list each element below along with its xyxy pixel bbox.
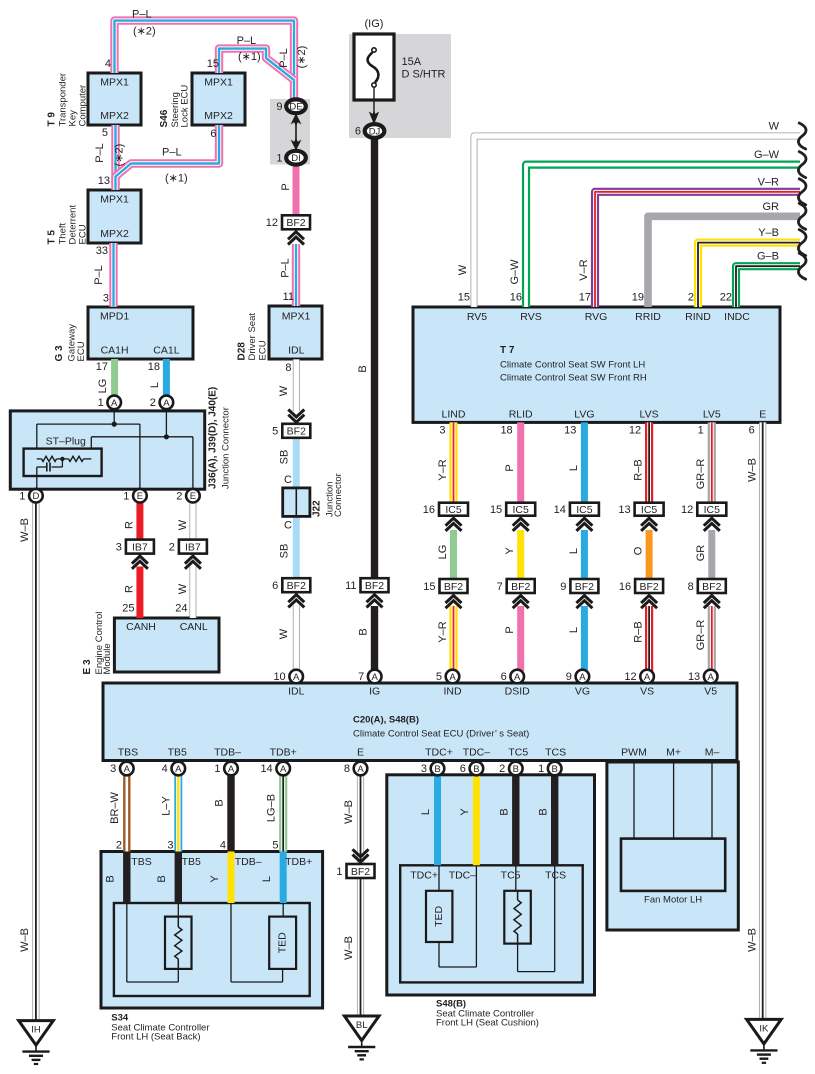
svg-text:Front LH (Seat Cushion): Front LH (Seat Cushion) (436, 1018, 539, 1029)
svg-text:TBS: TBS (118, 747, 138, 759)
svg-text:BF2: BF2 (286, 217, 305, 229)
svg-text:A: A (644, 672, 651, 683)
svg-text:B: B (538, 808, 550, 815)
svg-text:5: 5 (272, 426, 278, 438)
svg-text:4: 4 (162, 763, 168, 775)
svg-text:D28: D28 (237, 342, 248, 361)
svg-text:15: 15 (490, 504, 502, 516)
svg-text:R–B: R–B (633, 621, 645, 642)
svg-text:VS: VS (640, 686, 654, 698)
svg-text:C20(A), S48(B): C20(A), S48(B) (353, 715, 419, 726)
svg-text:1: 1 (336, 866, 342, 878)
svg-text:B: B (499, 808, 511, 815)
svg-text:3: 3 (167, 840, 173, 852)
svg-text:V–R: V–R (578, 259, 590, 280)
svg-text:A: A (357, 764, 364, 775)
svg-text:A: A (111, 398, 118, 409)
svg-text:GR–R: GR–R (695, 620, 707, 651)
svg-text:W: W (769, 121, 780, 133)
svg-text:IC5: IC5 (445, 504, 462, 516)
svg-text:(∗2): (∗2) (296, 46, 308, 69)
svg-text:TED: TED (433, 905, 445, 926)
svg-text:BF2: BF2 (575, 581, 594, 593)
svg-text:5: 5 (436, 671, 442, 683)
svg-text:R: R (124, 521, 136, 529)
svg-text:BF2: BF2 (351, 866, 370, 878)
svg-text:R: R (124, 585, 136, 593)
svg-text:C: C (284, 474, 292, 486)
svg-text:P–L: P–L (132, 9, 152, 21)
svg-text:BF2: BF2 (444, 581, 463, 593)
svg-text:L: L (568, 627, 580, 633)
svg-text:16: 16 (619, 581, 631, 593)
svg-text:L: L (420, 809, 432, 815)
svg-text:W–B: W–B (343, 800, 355, 824)
svg-text:Junction Connector: Junction Connector (221, 407, 232, 489)
svg-text:L: L (261, 876, 273, 882)
svg-text:Y–B: Y–B (758, 227, 779, 239)
svg-text:5: 5 (102, 127, 108, 139)
svg-text:TCS: TCS (545, 747, 566, 759)
svg-text:A: A (163, 398, 170, 409)
svg-text:Y: Y (459, 808, 471, 816)
svg-text:MPX1: MPX1 (282, 311, 311, 323)
svg-text:B: B (552, 764, 558, 775)
svg-text:W–B: W–B (747, 458, 759, 482)
svg-text:MPX1: MPX1 (100, 77, 129, 89)
svg-text:B: B (513, 764, 519, 775)
svg-text:BR–W: BR–W (109, 791, 121, 823)
svg-text:W–B: W–B (747, 928, 759, 952)
svg-text:33: 33 (96, 245, 108, 257)
svg-text:TB5: TB5 (168, 747, 187, 759)
svg-text:10: 10 (273, 671, 285, 683)
svg-text:W: W (278, 385, 290, 396)
svg-text:11: 11 (345, 580, 356, 592)
svg-text:P–L: P–L (162, 147, 182, 159)
svg-text:CANH: CANH (126, 621, 156, 633)
svg-text:Computer: Computer (78, 85, 89, 127)
svg-text:L: L (568, 465, 580, 471)
svg-text:E: E (357, 747, 364, 759)
svg-text:4: 4 (105, 58, 111, 70)
svg-text:1: 1 (19, 490, 25, 502)
svg-text:A: A (124, 764, 131, 775)
svg-text:BF2: BF2 (365, 580, 384, 592)
svg-text:W–B: W–B (19, 928, 31, 952)
svg-text:PWM: PWM (621, 747, 647, 759)
svg-text:DI: DI (291, 153, 301, 164)
svg-text:MPX1: MPX1 (204, 77, 233, 89)
svg-text:CA1L: CA1L (153, 345, 179, 357)
svg-text:LIND: LIND (442, 409, 466, 421)
svg-text:B: B (473, 764, 479, 775)
svg-text:7: 7 (497, 581, 503, 593)
svg-text:9: 9 (566, 671, 572, 683)
svg-text:TDC–: TDC– (463, 747, 491, 759)
svg-text:TED: TED (277, 932, 289, 953)
svg-text:TC5: TC5 (501, 869, 521, 881)
svg-text:1: 1 (214, 763, 220, 775)
svg-text:18: 18 (500, 425, 512, 437)
svg-text:B: B (357, 365, 369, 372)
svg-text:M+: M+ (666, 747, 681, 759)
svg-text:6: 6 (501, 671, 507, 683)
svg-text:RIND: RIND (685, 311, 711, 323)
svg-text:6: 6 (210, 128, 216, 140)
svg-text:6: 6 (272, 580, 278, 592)
svg-text:Y: Y (209, 875, 221, 883)
svg-text:15: 15 (207, 58, 219, 70)
svg-text:8: 8 (344, 763, 350, 775)
svg-text:E 3: E 3 (82, 659, 93, 674)
svg-text:TDC–: TDC– (449, 869, 477, 881)
svg-text:IDL: IDL (288, 345, 305, 357)
svg-text:CA1H: CA1H (101, 345, 129, 357)
svg-text:D S/HTR: D S/HTR (402, 69, 446, 81)
svg-text:LVG: LVG (574, 409, 594, 421)
svg-text:TDB+: TDB+ (270, 747, 297, 759)
svg-text:8: 8 (285, 362, 291, 374)
svg-text:17: 17 (579, 292, 591, 304)
svg-text:TC5: TC5 (508, 747, 528, 759)
svg-text:A: A (280, 764, 287, 775)
svg-text:T 5: T 5 (47, 230, 58, 245)
svg-text:15A: 15A (402, 56, 422, 68)
svg-text:19: 19 (632, 292, 644, 304)
svg-text:BL: BL (356, 1020, 368, 1031)
svg-text:15: 15 (423, 581, 435, 593)
svg-text:2: 2 (150, 397, 156, 409)
svg-text:IC5: IC5 (576, 504, 593, 516)
svg-text:TDC+: TDC+ (410, 869, 438, 881)
svg-text:RVG: RVG (585, 311, 608, 323)
svg-text:2: 2 (116, 840, 122, 852)
svg-text:6: 6 (355, 126, 361, 138)
svg-text:1: 1 (98, 397, 104, 409)
svg-text:BF2: BF2 (511, 581, 530, 593)
svg-text:IND: IND (443, 686, 462, 698)
svg-text:P: P (280, 183, 292, 190)
svg-text:RVS: RVS (520, 311, 541, 323)
svg-text:18: 18 (148, 361, 160, 373)
svg-text:IH: IH (31, 1025, 41, 1036)
svg-text:Lock ECU: Lock ECU (180, 85, 191, 128)
svg-text:1: 1 (276, 152, 282, 164)
svg-text:12: 12 (624, 671, 636, 683)
svg-text:12: 12 (266, 217, 278, 229)
svg-text:TDB–: TDB– (214, 747, 241, 759)
svg-text:B: B (358, 628, 370, 635)
svg-text:G 3: G 3 (54, 345, 65, 362)
svg-text:4: 4 (220, 840, 226, 852)
svg-text:MPX2: MPX2 (100, 110, 129, 122)
svg-text:LG: LG (97, 379, 109, 394)
svg-text:IB7: IB7 (185, 541, 201, 553)
svg-text:G–B: G–B (757, 251, 779, 263)
svg-text:IK: IK (759, 1023, 769, 1034)
svg-text:(∗2): (∗2) (114, 144, 126, 167)
svg-text:P–L: P–L (278, 48, 290, 68)
svg-text:T 9: T 9 (47, 112, 58, 127)
svg-text:16: 16 (423, 504, 435, 516)
svg-text:O: O (633, 546, 645, 555)
svg-text:8: 8 (688, 581, 694, 593)
svg-text:12: 12 (629, 425, 641, 437)
svg-text:G–W: G–W (754, 149, 780, 161)
svg-text:15: 15 (458, 292, 470, 304)
svg-text:A: A (514, 672, 521, 683)
svg-text:1: 1 (123, 490, 129, 502)
svg-text:LG–B: LG–B (266, 794, 278, 822)
svg-text:P: P (504, 626, 516, 633)
svg-text:B: B (105, 875, 117, 882)
svg-text:GR: GR (763, 201, 780, 213)
svg-text:L: L (568, 548, 580, 554)
svg-text:L–Y: L–Y (161, 796, 173, 816)
svg-text:TCS: TCS (545, 869, 566, 881)
svg-text:5: 5 (272, 840, 278, 852)
svg-text:P: P (504, 464, 516, 471)
svg-text:A: A (449, 672, 456, 683)
svg-text:(∗1): (∗1) (165, 173, 188, 185)
svg-text:(IG): (IG) (365, 18, 384, 30)
svg-text:Y–R: Y–R (437, 621, 449, 642)
svg-text:A: A (175, 764, 182, 775)
svg-text:A: A (579, 672, 586, 683)
svg-text:S46: S46 (159, 109, 170, 127)
svg-text:IDL: IDL (288, 686, 305, 698)
svg-text:ECU: ECU (78, 224, 89, 244)
svg-text:Y: Y (504, 547, 516, 555)
svg-text:L: L (149, 382, 161, 388)
svg-text:TDB–: TDB– (235, 856, 262, 868)
svg-text:2: 2 (176, 490, 182, 502)
svg-text:3: 3 (421, 763, 427, 775)
svg-text:B: B (434, 764, 440, 775)
svg-text:2: 2 (499, 763, 505, 775)
svg-text:Connector: Connector (333, 473, 344, 517)
svg-text:6: 6 (460, 763, 466, 775)
svg-text:P–L: P–L (237, 35, 257, 47)
svg-text:1: 1 (538, 763, 544, 775)
svg-text:RRID: RRID (635, 311, 661, 323)
svg-text:V5: V5 (704, 686, 717, 698)
svg-text:INDC: INDC (724, 311, 750, 323)
svg-text:GR: GR (695, 545, 707, 562)
svg-text:IG: IG (369, 686, 380, 698)
svg-text:ST–Plug: ST–Plug (46, 436, 86, 448)
svg-text:Driver Seat: Driver Seat (247, 313, 258, 361)
svg-text:A: A (293, 672, 300, 683)
svg-text:P–L: P–L (93, 265, 105, 285)
svg-text:D: D (32, 491, 39, 502)
svg-text:13: 13 (688, 671, 700, 683)
svg-text:E: E (759, 409, 766, 421)
svg-text:J36(A), J39(D), J40(E): J36(A), J39(D), J40(E) (208, 387, 219, 489)
svg-text:MPX2: MPX2 (100, 228, 129, 240)
svg-text:(∗2): (∗2) (133, 26, 156, 38)
svg-text:Climate Control Seat SW Front: Climate Control Seat SW Front RH (500, 373, 647, 384)
svg-text:W: W (457, 264, 469, 275)
svg-text:MPD1: MPD1 (100, 311, 129, 323)
svg-text:VG: VG (575, 686, 590, 698)
svg-text:C: C (284, 520, 292, 532)
svg-text:LVS: LVS (640, 409, 659, 421)
svg-text:M–: M– (705, 747, 720, 759)
svg-text:W–B: W–B (19, 518, 31, 542)
svg-text:Fan Motor LH: Fan Motor LH (644, 895, 702, 906)
svg-text:Climate Control Seat SW Front: Climate Control Seat SW Front LH (500, 360, 645, 371)
svg-text:CANL: CANL (180, 621, 208, 633)
svg-text:RV5: RV5 (467, 311, 487, 323)
svg-text:13: 13 (98, 175, 110, 187)
svg-text:9: 9 (276, 101, 282, 113)
svg-text:MPX2: MPX2 (204, 110, 233, 122)
svg-text:DSID: DSID (505, 686, 531, 698)
svg-text:B: B (156, 875, 168, 882)
svg-text:GR–R: GR–R (695, 459, 707, 490)
svg-text:11: 11 (283, 291, 294, 303)
svg-text:P–L: P–L (280, 258, 292, 278)
svg-text:24: 24 (175, 603, 187, 615)
svg-text:16: 16 (510, 292, 522, 304)
svg-text:MPX1: MPX1 (100, 194, 129, 206)
svg-text:ECU: ECU (258, 340, 269, 360)
svg-text:Module: Module (102, 643, 113, 674)
svg-text:Front LH (Seat Back): Front LH (Seat Back) (111, 1032, 200, 1043)
svg-text:13: 13 (618, 504, 630, 516)
svg-text:ECU: ECU (76, 341, 87, 361)
svg-text:IB7: IB7 (132, 541, 148, 553)
svg-text:(∗1): (∗1) (238, 51, 261, 63)
svg-text:TBS: TBS (131, 856, 151, 868)
svg-text:IC5: IC5 (513, 504, 530, 516)
svg-text:TDB+: TDB+ (285, 856, 312, 868)
svg-text:BF2: BF2 (702, 581, 721, 593)
svg-text:A: A (228, 764, 235, 775)
svg-text:TB5: TB5 (182, 856, 201, 868)
svg-text:A: A (372, 672, 379, 683)
svg-text:12: 12 (681, 504, 693, 516)
svg-text:BF2: BF2 (287, 426, 306, 438)
svg-text:LV5: LV5 (703, 409, 721, 421)
svg-text:13: 13 (564, 425, 576, 437)
svg-text:T 7: T 7 (500, 345, 515, 356)
svg-text:TDC+: TDC+ (425, 747, 453, 759)
svg-text:DE: DE (289, 102, 302, 113)
svg-text:G–W: G–W (509, 259, 521, 285)
svg-text:SB: SB (279, 450, 291, 465)
svg-text:B: B (214, 799, 226, 806)
svg-text:SB: SB (279, 544, 291, 559)
svg-text:3: 3 (116, 541, 122, 553)
svg-text:BF2: BF2 (287, 580, 306, 592)
svg-text:IC5: IC5 (704, 504, 721, 516)
svg-text:J22: J22 (312, 500, 323, 517)
svg-text:14: 14 (554, 504, 566, 516)
svg-text:E: E (137, 491, 143, 502)
svg-text:6: 6 (749, 425, 755, 437)
svg-text:Climate Control Seat ECU (Driv: Climate Control Seat ECU (Driver’ s Seat… (353, 729, 529, 740)
svg-text:25: 25 (122, 603, 134, 615)
svg-text:LG: LG (437, 545, 449, 560)
svg-text:1: 1 (698, 425, 704, 437)
svg-text:3: 3 (439, 425, 445, 437)
svg-text:2: 2 (169, 541, 175, 553)
svg-text:RLID: RLID (509, 409, 533, 421)
svg-text:A: A (708, 672, 715, 683)
svg-text:7: 7 (358, 671, 364, 683)
svg-text:DJ: DJ (369, 126, 381, 137)
svg-text:R–B: R–B (633, 459, 645, 480)
svg-text:V–R: V–R (758, 176, 779, 188)
svg-text:2: 2 (688, 292, 694, 304)
svg-text:14: 14 (260, 763, 272, 775)
svg-text:17: 17 (96, 361, 108, 373)
svg-text:IC5: IC5 (641, 504, 658, 516)
svg-text:W: W (278, 628, 290, 639)
svg-text:W: W (177, 519, 189, 530)
svg-text:22: 22 (720, 292, 732, 304)
svg-text:W: W (177, 583, 189, 594)
svg-text:3: 3 (110, 763, 116, 775)
svg-text:9: 9 (560, 581, 566, 593)
svg-text:P–L: P–L (94, 143, 106, 163)
svg-text:Y–R: Y–R (437, 459, 449, 480)
svg-text:BF2: BF2 (639, 581, 658, 593)
svg-text:E: E (190, 491, 196, 502)
svg-text:3: 3 (103, 293, 109, 305)
svg-text:W–B: W–B (343, 936, 355, 960)
